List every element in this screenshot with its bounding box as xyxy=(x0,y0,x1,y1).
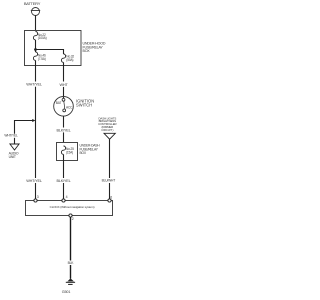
wire fuse1 to junction xyxy=(35,40,37,52)
svg-text:BATTERY: BATTERY xyxy=(24,1,41,6)
svg-text:CLOCK (Without navigation syst: CLOCK (Without navigation system) xyxy=(50,205,95,209)
wire ignition switch to under-dash box xyxy=(63,116,65,127)
svg-text:G501: G501 xyxy=(62,290,71,294)
node junction dot xyxy=(34,48,37,51)
battery BT1 xyxy=(31,8,40,16)
pin terminal bottom xyxy=(69,214,72,217)
fuse No.32 50A xyxy=(61,54,65,62)
wire battery to under-hood box xyxy=(35,16,37,31)
svg-text:BOX: BOX xyxy=(83,49,91,53)
connector arrow to audio unit xyxy=(10,144,19,150)
pin terminal middle xyxy=(62,199,65,202)
svg-text:BLU/WHT: BLU/WHT xyxy=(102,179,116,183)
pin terminal right xyxy=(108,199,111,202)
svg-text:WHT: WHT xyxy=(59,83,68,87)
svg-text:UNIT: UNIT xyxy=(9,155,16,159)
svg-text:(100A): (100A) xyxy=(38,36,47,40)
wire junction to right branch xyxy=(36,50,64,55)
wire right fuse to box edge and down xyxy=(63,62,65,81)
wire dash lights to clock xyxy=(109,139,111,178)
clock box xyxy=(26,201,113,216)
svg-text:(7.5A): (7.5A) xyxy=(38,57,46,61)
audio unit branch wire xyxy=(15,121,35,134)
ignition switch SW1 xyxy=(54,97,74,117)
svg-text:CIRCUIT ): CIRCUIT ) xyxy=(101,128,113,132)
svg-text:BOX: BOX xyxy=(80,151,87,155)
svg-text:2: 2 xyxy=(72,217,74,221)
svg-text:(50A): (50A) xyxy=(66,58,73,62)
fuse No.46 7.5A xyxy=(33,52,37,60)
svg-text:4: 4 xyxy=(66,195,68,199)
wire under-dash box to clock xyxy=(63,161,65,179)
svg-text:WHT/YEL: WHT/YEL xyxy=(26,179,42,183)
under-dash fuse/relay box xyxy=(57,143,78,161)
fuse No.25 15A xyxy=(61,146,65,154)
under-hood fuse/relay box xyxy=(25,31,82,66)
svg-text:BLK/YEL: BLK/YEL xyxy=(56,128,70,132)
svg-text:BLK/YEL: BLK/YEL xyxy=(56,179,70,183)
wire clock to ground xyxy=(70,217,72,261)
svg-text:WHT/YEL: WHT/YEL xyxy=(26,83,42,87)
pin terminal left xyxy=(34,199,37,202)
svg-text:3: 3 xyxy=(37,195,39,199)
svg-text:WHT/YEL: WHT/YEL xyxy=(4,134,18,138)
fuse No.22 100A xyxy=(33,32,37,40)
svg-text:(15A): (15A) xyxy=(66,151,73,155)
connector arrow from dash lights controller xyxy=(104,133,115,139)
svg-text:ACC: ACC xyxy=(66,106,73,110)
node branch arrow xyxy=(32,119,35,122)
wire to audio branch and clock xyxy=(35,87,37,178)
svg-text:SWITCH: SWITCH xyxy=(76,103,92,108)
wire left fuse to box edge and down xyxy=(35,60,37,81)
ground G501 xyxy=(62,278,75,293)
svg-text:BLK: BLK xyxy=(68,261,75,265)
svg-text:BAT: BAT xyxy=(56,101,62,105)
